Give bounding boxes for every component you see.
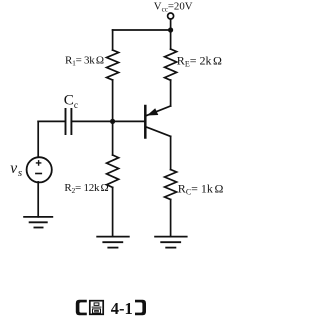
resistor R2: [107, 155, 119, 187]
ground (RC): [154, 237, 187, 248]
resistor RC: [165, 170, 177, 200]
source vs plus sign: [37, 161, 41, 165]
source vs minus sign: [36, 173, 41, 175]
wire collector vertical: [170, 136, 172, 169]
wire base: [113, 120, 145, 122]
svg-text:RE= 2kΩ: RE= 2kΩ: [177, 53, 222, 68]
wire left branch mid: [112, 80, 114, 155]
wire left branch lower: [112, 187, 114, 236]
resistor R1: [107, 50, 119, 80]
wire emitter diagonal: [146, 106, 170, 116]
svg-text:4-1: 4-1: [111, 299, 133, 318]
transistor Q1 bar: [144, 106, 147, 138]
resistor RE: [165, 49, 177, 80]
caption figure 4-1: [76, 299, 146, 318]
svg-text:R2= 12kΩ: R2= 12kΩ: [64, 182, 108, 195]
svg-text:RC= 1kΩ: RC= 1kΩ: [178, 181, 224, 196]
caption left lenticular bracket: [76, 300, 87, 315]
wire right branch upper: [170, 30, 172, 49]
Vcc terminal circle: [168, 13, 174, 19]
wire emitter vertical: [170, 80, 172, 106]
wire left branch upper: [112, 30, 114, 50]
node Vcc junction: [168, 27, 173, 32]
transistor Q1 emitter arrow (PNP): [147, 108, 158, 115]
svg-text:Vcc=20V: Vcc=20V: [154, 0, 193, 13]
svg-text:R1= 3kΩ: R1= 3kΩ: [65, 55, 104, 68]
ground (R2): [96, 237, 129, 248]
node base junction: [110, 119, 115, 124]
wire Vcc stem: [170, 19, 172, 30]
caption character tu (figure): [90, 301, 103, 315]
wire right branch lower: [170, 200, 172, 237]
wire capacitor left horizontal: [38, 120, 64, 122]
source vs circle: [27, 157, 52, 182]
capacitor Cc: [66, 109, 72, 134]
wire source stem upper: [37, 121, 39, 157]
ground (source): [23, 217, 53, 228]
wire source stem lower: [37, 182, 39, 217]
wire top rail: [113, 29, 171, 31]
wire capacitor right horizontal: [72, 120, 112, 122]
wire collector diagonal: [146, 127, 170, 136]
caption right lenticular bracket: [135, 300, 146, 315]
